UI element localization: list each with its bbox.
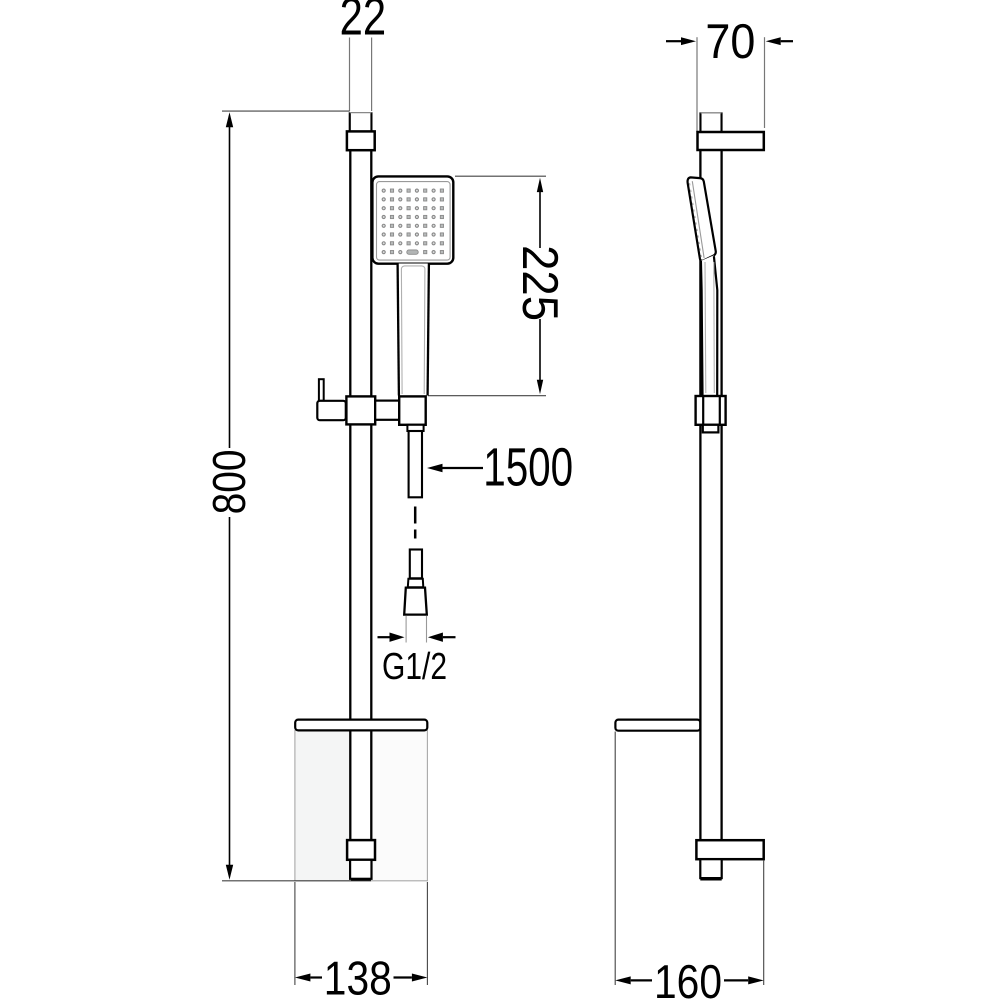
dimension 160 extension lines (615, 732, 764, 986)
hose upper segment (409, 431, 422, 497)
soap dish glass box (front view) (295, 730, 428, 880)
svg-text:138: 138 (324, 952, 392, 1000)
handset handle (front view) (398, 264, 429, 396)
soap dish tray (side view) (615, 720, 700, 731)
dimension 138 extension lines (295, 882, 428, 985)
hanging hook on slider (317, 379, 346, 420)
svg-text:160: 160 (654, 956, 722, 1000)
svg-text:225: 225 (512, 245, 569, 321)
rail top neck (side view) (701, 112, 722, 132)
svg-text:G1/2: G1/2 (382, 646, 447, 688)
hose break dashed line (414, 507, 417, 539)
dimension 160 line with arrows (615, 976, 764, 984)
hose end collar (408, 579, 424, 588)
dimension 800 extension line bottom (222, 880, 371, 882)
holder lower lug (side view) (703, 425, 719, 433)
dimension 800 line with arrows (226, 112, 233, 879)
wall bracket bottom flange (front view) (347, 840, 375, 860)
G1/2 thread tube (406, 616, 426, 643)
wall bracket top flange (front view) (347, 131, 375, 150)
hose lower segment (410, 550, 422, 579)
dimension 225 line with arrows (537, 178, 543, 395)
shower head (front view) (372, 176, 453, 263)
wall bracket top flange (side view) (698, 132, 764, 150)
shower head nozzle grid (382, 189, 443, 254)
svg-text:800: 800 (203, 449, 255, 514)
dimension 138 line with arrows (295, 974, 428, 982)
handset handle (side view) (701, 255, 718, 395)
svg-text:22: 22 (340, 0, 387, 46)
slider-holder connector (375, 401, 399, 420)
dimension 800 extension line top (222, 110, 350, 112)
rail tube (front view) (350, 150, 371, 840)
svg-text:1500: 1500 (483, 438, 573, 498)
dimension 225 extension line bottom (428, 395, 546, 397)
shower head logo badge (407, 250, 418, 254)
dimension 22 extension lines (350, 38, 372, 112)
handle holder cone (front view) (399, 396, 426, 424)
shower head face plate (front view) (377, 182, 451, 261)
rail bottom neck (side view) (700, 859, 721, 879)
handset head (side view, tilted) (688, 177, 716, 260)
wall bracket bottom flange (side view) (696, 840, 763, 859)
rail bottom neck (front view) (350, 860, 371, 880)
rail top neck (front view) (350, 112, 372, 131)
dimension 70 extension lines (697, 37, 765, 132)
hose nut under holder (407, 425, 423, 431)
dimension 1500 arrow and leader (427, 464, 483, 472)
hose connector cone (404, 588, 427, 615)
svg-text:70: 70 (705, 15, 755, 69)
rail tube (side view) (700, 150, 721, 840)
slider block on rail (front view) (346, 396, 375, 424)
soap dish tray (front view) (295, 720, 427, 731)
holder block (side view) (696, 396, 726, 425)
dimension G1/2 arrows (378, 633, 456, 642)
dimension 225 extension line top (455, 175, 546, 177)
dimension 70 line with arrows (666, 37, 793, 45)
